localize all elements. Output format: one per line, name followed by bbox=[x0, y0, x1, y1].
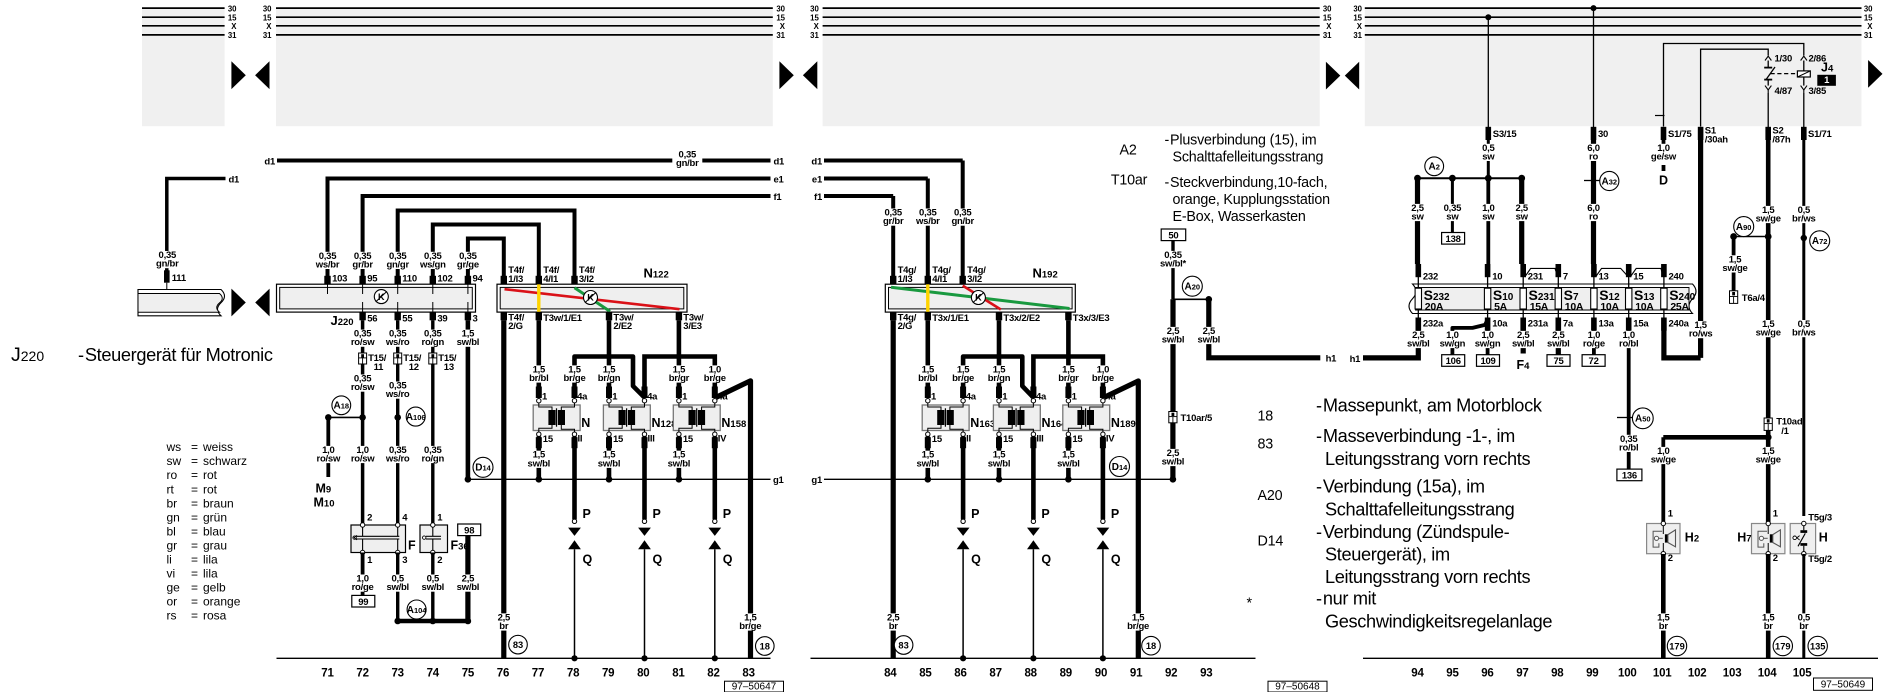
svg-text:- Masseverbindung -1-, im: - Masseverbindung -1-, im bbox=[1316, 426, 1515, 446]
svg-text:N163: N163 bbox=[970, 416, 995, 430]
wire 1,5 br/gr to coil N158 bbox=[664, 320, 694, 398]
ground 179 (H7) bbox=[1773, 636, 1792, 655]
svg-text:4: 4 bbox=[402, 513, 408, 524]
svg-text:4a: 4a bbox=[1106, 392, 1117, 403]
svg-text:gr/ge: gr/ge bbox=[457, 259, 479, 270]
svg-text:=: = bbox=[191, 552, 198, 566]
svg-text:T3x/3/E3: T3x/3/E3 bbox=[1073, 313, 1110, 324]
svg-text:A106: A106 bbox=[406, 412, 426, 423]
svg-text:31: 31 bbox=[1323, 31, 1332, 40]
svg-text:h1: h1 bbox=[1350, 354, 1362, 365]
svg-text:1: 1 bbox=[1072, 392, 1078, 403]
svg-text:sw/bl: sw/bl bbox=[1057, 458, 1080, 469]
wire 1,5 br/gr to coil N189 bbox=[1053, 320, 1083, 398]
svg-text:135: 135 bbox=[1810, 641, 1826, 651]
wire S1/30ah-1/30 feed bbox=[1701, 49, 1769, 126]
wire h1 (middle panel) bbox=[1194, 299, 1337, 364]
svg-text:94: 94 bbox=[473, 274, 484, 285]
svg-text:ro/sw: ro/sw bbox=[351, 454, 375, 465]
svg-text:103: 103 bbox=[332, 274, 347, 285]
svg-text:10a: 10a bbox=[1492, 318, 1508, 329]
svg-text:sw/bl: sw/bl bbox=[528, 458, 551, 469]
svg-text:br/ge: br/ge bbox=[952, 373, 974, 384]
svg-text:ro/gn: ro/gn bbox=[422, 454, 445, 465]
svg-text:15: 15 bbox=[613, 434, 624, 445]
svg-text:br/ws: br/ws bbox=[1792, 214, 1816, 225]
svg-text:30: 30 bbox=[1323, 4, 1332, 13]
svg-text:ws/br: ws/br bbox=[915, 216, 940, 227]
wire S1/75-2/86 feed bbox=[1664, 44, 1804, 127]
svg-text:4/I1: 4/I1 bbox=[543, 274, 559, 285]
svg-text:1: 1 bbox=[612, 392, 618, 403]
svg-text:87: 87 bbox=[989, 667, 1001, 679]
ground 83 (left) bbox=[509, 635, 528, 654]
svg-text:sw/bl: sw/bl bbox=[422, 582, 445, 593]
svg-text:*: * bbox=[1247, 595, 1253, 611]
wire 2,5 sw/bl to g1 bbox=[1158, 423, 1188, 480]
svg-text:ro/sw: ro/sw bbox=[317, 454, 341, 465]
svg-text:- Verbindung (Zündspule-: - Verbindung (Zündspule- bbox=[1316, 522, 1510, 542]
svg-text:18: 18 bbox=[760, 641, 770, 651]
svg-text:30: 30 bbox=[263, 4, 272, 13]
box 72 bbox=[1582, 355, 1605, 367]
svg-text:sw/bl: sw/bl bbox=[386, 582, 409, 593]
svg-text:T3x/1/E1: T3x/1/E1 bbox=[932, 313, 970, 324]
control unit connector strip J220 bbox=[277, 284, 476, 312]
svg-text:ws/br: ws/br bbox=[315, 259, 340, 270]
svg-text:31: 31 bbox=[776, 31, 785, 40]
svg-text:D14: D14 bbox=[1112, 462, 1128, 473]
svg-text:g1: g1 bbox=[773, 475, 785, 486]
svg-text:10A: 10A bbox=[1635, 301, 1654, 313]
svg-text:br/ge: br/ge bbox=[704, 373, 726, 384]
svg-text:103: 103 bbox=[1723, 667, 1742, 679]
svg-text:101: 101 bbox=[1653, 667, 1672, 679]
svg-text:- Steckverbindung,10-fach,: - Steckverbindung,10-fach, bbox=[1165, 175, 1328, 191]
svg-text:232: 232 bbox=[1423, 271, 1438, 282]
svg-text:f1: f1 bbox=[774, 192, 783, 203]
svg-text:3: 3 bbox=[473, 314, 478, 325]
label N192 bbox=[1033, 266, 1058, 281]
svg-text:97–50648: 97–50648 bbox=[1275, 682, 1320, 692]
svg-text:10A: 10A bbox=[1600, 301, 1619, 313]
box 109 bbox=[1477, 355, 1500, 367]
ignition coil N158 bbox=[673, 387, 746, 449]
svg-text:240: 240 bbox=[1669, 271, 1684, 282]
svg-text:br/ge: br/ge bbox=[564, 373, 586, 384]
svg-text:11: 11 bbox=[374, 362, 385, 373]
svg-text:56: 56 bbox=[367, 314, 377, 325]
ignition transformer connector strip N122 bbox=[497, 284, 687, 312]
wire e1 from pin 103 bbox=[328, 174, 785, 284]
svg-text:N: N bbox=[581, 416, 590, 430]
svg-text:31: 31 bbox=[228, 31, 237, 40]
svg-text:ro: ro bbox=[167, 468, 178, 482]
svg-text:T10ar/5: T10ar/5 bbox=[1181, 413, 1213, 424]
svg-text:ws/gn: ws/gn bbox=[419, 259, 446, 270]
wire fuse 240a to S1/30ah bbox=[1664, 331, 1701, 358]
wire 2,5 sw/bl to box 75 bbox=[1543, 330, 1573, 355]
spark plug P/Q (cyl II middle) bbox=[957, 436, 981, 661]
svg-text:138: 138 bbox=[1446, 234, 1461, 245]
svg-text:K: K bbox=[378, 292, 385, 302]
svg-text:50: 50 bbox=[1168, 230, 1178, 241]
svg-text:sw: sw bbox=[1482, 151, 1495, 162]
svg-text:104: 104 bbox=[1758, 667, 1777, 679]
svg-text:d1: d1 bbox=[229, 174, 241, 185]
wire 1,5 br/ge bridge N-4a to N128-4a bbox=[560, 357, 645, 399]
svg-text:X: X bbox=[1326, 22, 1332, 31]
red wire in N122 bbox=[505, 289, 680, 309]
svg-text:75: 75 bbox=[462, 667, 475, 679]
svg-text:br: br bbox=[1799, 621, 1809, 632]
svg-text:d1: d1 bbox=[811, 156, 823, 167]
svg-text:Q: Q bbox=[583, 552, 593, 566]
N122 top pins T4f bbox=[501, 265, 596, 285]
svg-text:3/I2: 3/I2 bbox=[967, 274, 982, 285]
page connector triangles (top) bbox=[231, 60, 1882, 90]
switch F36 bbox=[420, 523, 469, 555]
label J220 bbox=[331, 313, 354, 328]
junction A104 bbox=[394, 600, 471, 624]
svg-text:rosa: rosa bbox=[203, 608, 227, 622]
svg-text:231: 231 bbox=[1528, 271, 1544, 282]
svg-text:sw/bl: sw/bl bbox=[917, 458, 940, 469]
svg-text:ws/ro: ws/ro bbox=[385, 454, 410, 465]
svg-text:e1: e1 bbox=[774, 174, 785, 185]
svg-text:sw/ge: sw/ge bbox=[1756, 214, 1781, 225]
svg-text:86: 86 bbox=[954, 667, 966, 679]
svg-text:br/gn: br/gn bbox=[598, 373, 621, 384]
svg-text:97–50647: 97–50647 bbox=[732, 682, 777, 692]
connector T10ar/5 bbox=[1169, 412, 1213, 424]
svg-text:1: 1 bbox=[1002, 392, 1008, 403]
svg-text:=: = bbox=[191, 496, 198, 510]
svg-text:240a: 240a bbox=[1669, 318, 1690, 329]
svg-text:sw: sw bbox=[1482, 212, 1495, 223]
svg-text:4/I1: 4/I1 bbox=[932, 274, 948, 285]
junction D14 (left) bbox=[473, 457, 493, 477]
svg-text:gr/br: gr/br bbox=[883, 216, 904, 227]
svg-text:13: 13 bbox=[444, 362, 454, 373]
svg-text:1: 1 bbox=[1668, 509, 1674, 520]
svg-text:ro/ge: ro/ge bbox=[352, 582, 374, 593]
svg-text:10A: 10A bbox=[1565, 301, 1584, 313]
svg-text:e1: e1 bbox=[812, 174, 823, 185]
ground 18 (middle) bbox=[1142, 636, 1161, 655]
svg-text:- Massepunkt, am Motorblock: - Massepunkt, am Motorblock bbox=[1316, 395, 1543, 415]
svg-text:84: 84 bbox=[884, 667, 897, 679]
ignition coil N163 bbox=[922, 387, 995, 449]
svg-text:gn/gr: gn/gr bbox=[386, 259, 409, 270]
ground 179 (H2) bbox=[1667, 636, 1686, 655]
fuse strip bbox=[1409, 284, 1696, 314]
svg-text:31: 31 bbox=[1864, 31, 1873, 40]
wire 1,5 ro/ws (S1/30ah) bbox=[1686, 140, 1716, 358]
svg-text:85: 85 bbox=[919, 667, 932, 679]
svg-text:br/ge: br/ge bbox=[739, 621, 761, 632]
svg-text:br/ge: br/ge bbox=[1092, 373, 1114, 384]
fuse top pin labels bbox=[1423, 271, 1684, 282]
svg-text:H: H bbox=[1819, 531, 1828, 545]
box 99 bbox=[352, 595, 375, 607]
svg-text:89: 89 bbox=[1060, 667, 1072, 679]
spark plug P/Q (cyl III) bbox=[638, 436, 662, 661]
svg-text:18: 18 bbox=[1146, 641, 1156, 651]
svg-text:=: = bbox=[191, 608, 198, 622]
svg-text:br/bl: br/bl bbox=[918, 373, 937, 384]
svg-text:br: br bbox=[889, 621, 899, 632]
svg-text:1/30: 1/30 bbox=[1775, 54, 1793, 65]
tick S1/75 bbox=[1655, 115, 1665, 117]
svg-text:X: X bbox=[266, 22, 272, 31]
svg-text:83: 83 bbox=[742, 667, 754, 679]
svg-text:sw/bl: sw/bl bbox=[668, 458, 691, 469]
wire 1,0 ge/sw to D bbox=[1649, 140, 1679, 188]
svg-text:J220: J220 bbox=[331, 313, 354, 328]
svg-text:/1: /1 bbox=[1781, 426, 1789, 437]
svg-text:102: 102 bbox=[437, 274, 452, 285]
svg-text:30: 30 bbox=[1353, 4, 1362, 13]
svg-text:or: or bbox=[167, 594, 178, 608]
svg-text:sw/bl: sw/bl bbox=[1162, 457, 1185, 468]
svg-text:rot: rot bbox=[203, 468, 218, 482]
svg-text:P: P bbox=[583, 507, 591, 521]
svg-text:Leitungsstrang vorn rechts: Leitungsstrang vorn rechts bbox=[1325, 567, 1530, 587]
svg-text:97: 97 bbox=[1516, 667, 1528, 679]
svg-text:15: 15 bbox=[932, 434, 943, 445]
page connector triangles (strip level) bbox=[231, 289, 269, 317]
svg-text:gn/br: gn/br bbox=[676, 158, 699, 169]
svg-text:=: = bbox=[191, 524, 198, 538]
svg-text:2: 2 bbox=[367, 513, 372, 524]
svg-text:schwarz: schwarz bbox=[203, 454, 247, 468]
svg-text:D14: D14 bbox=[1258, 533, 1284, 549]
box 98 bbox=[458, 524, 481, 536]
svg-text:4a: 4a bbox=[647, 392, 658, 403]
svg-text:sw/bl: sw/bl bbox=[598, 458, 621, 469]
svg-text:Q: Q bbox=[971, 552, 981, 566]
wire labels 0,35 above J220 bbox=[313, 251, 483, 271]
wire 1,0 ro/ge bbox=[348, 553, 378, 596]
svg-text:=: = bbox=[191, 580, 198, 594]
legend 18 83 A20 D14 * bbox=[1247, 395, 1553, 631]
label N122 bbox=[644, 266, 669, 281]
svg-text:N158: N158 bbox=[721, 416, 746, 430]
svg-text:sw/bl: sw/bl bbox=[1162, 335, 1185, 346]
svg-text:P: P bbox=[1041, 507, 1049, 521]
svg-text:ws/ro: ws/ro bbox=[385, 337, 410, 348]
svg-text:95: 95 bbox=[367, 274, 378, 285]
svg-text:74: 74 bbox=[427, 667, 440, 679]
svg-text:111: 111 bbox=[172, 273, 187, 284]
svg-text:81: 81 bbox=[672, 667, 685, 679]
svg-text:sw: sw bbox=[167, 454, 182, 468]
svg-text:gr: gr bbox=[167, 538, 178, 552]
svg-text:P: P bbox=[971, 507, 979, 521]
svg-text:br: br bbox=[1764, 621, 1774, 632]
wire label 0,35 ws/ro (below T15/12) bbox=[383, 381, 413, 401]
wire d1 to pin 111 bbox=[152, 174, 240, 270]
svg-text:3/E3: 3/E3 bbox=[683, 321, 702, 332]
svg-text:S1/71: S1/71 bbox=[1808, 129, 1833, 140]
yellow wire in N122 bbox=[537, 283, 540, 313]
svg-text:sw/bl: sw/bl bbox=[457, 337, 480, 348]
terminal pin labels S3/15 30 S1/75 S1/30ah S2/87h S1/71 bbox=[1493, 126, 1833, 146]
svg-text:232a: 232a bbox=[1423, 318, 1444, 329]
diagram number 97-50648 bbox=[1268, 681, 1327, 692]
svg-text:sw/gn: sw/gn bbox=[1440, 339, 1466, 350]
wire 2,5 br to ground bbox=[489, 320, 519, 658]
wire 2,5 sw to fuse S231 bbox=[1507, 178, 1537, 264]
box 50 bbox=[1161, 229, 1186, 241]
horn H (high tone) bbox=[1790, 512, 1832, 565]
svg-text:braun: braun bbox=[203, 496, 234, 510]
svg-text:sw: sw bbox=[1446, 212, 1459, 223]
svg-text:br/gr: br/gr bbox=[1058, 373, 1079, 384]
svg-text:109: 109 bbox=[1480, 356, 1495, 367]
svg-text:X: X bbox=[1867, 22, 1873, 31]
green wire in N122 bbox=[575, 288, 611, 312]
ignition transformer connector strip N192 bbox=[885, 284, 1075, 312]
svg-text:grau: grau bbox=[203, 538, 227, 552]
svg-text:ro/bl: ro/bl bbox=[1619, 442, 1638, 453]
svg-text:X: X bbox=[1357, 22, 1363, 31]
wire 2,5 br to ground (middle) bbox=[878, 320, 908, 658]
svg-text:III: III bbox=[1036, 434, 1043, 445]
wire 2,5 sw/bl to T10ar/5 bbox=[1158, 299, 1188, 411]
svg-text:=: = bbox=[191, 594, 198, 608]
wire 1,5 br/ge bridge N163-4a to N164-4a bbox=[948, 357, 1033, 399]
pin 111 bbox=[164, 270, 187, 295]
svg-text:X: X bbox=[231, 22, 237, 31]
relay J4 contacts and coil bbox=[1764, 56, 1810, 93]
svg-text:=: = bbox=[191, 510, 198, 524]
svg-text:=: = bbox=[191, 482, 198, 496]
svg-text:Leitungsstrang vorn rechts: Leitungsstrang vorn rechts bbox=[1325, 449, 1530, 469]
svg-text:bl: bl bbox=[167, 524, 176, 538]
N192 top pins T4g bbox=[890, 265, 986, 285]
junction A18 bbox=[325, 396, 366, 421]
wire label 0,35 ro/sw (below T15/11) bbox=[348, 374, 378, 394]
wire pin94 to T4f/1/I3 bbox=[468, 239, 504, 285]
wire 2,5 sw/bl to F4 bbox=[1508, 330, 1538, 372]
svg-text:88: 88 bbox=[1024, 667, 1037, 679]
svg-text:E-Box, Wasserkasten: E-Box, Wasserkasten bbox=[1173, 209, 1306, 225]
svg-text:A72: A72 bbox=[1812, 236, 1828, 247]
svg-text:15: 15 bbox=[1633, 271, 1644, 282]
svg-text:II: II bbox=[578, 434, 583, 445]
terminal bus panels (gray) bbox=[142, 9, 1862, 126]
bottom rail (right panel) bbox=[1363, 657, 1878, 659]
svg-text:ro/sw: ro/sw bbox=[351, 337, 375, 348]
wire 1,0 br/ge bridge N128-4a to N158-4a bbox=[645, 357, 730, 399]
svg-text:Q: Q bbox=[1111, 552, 1121, 566]
svg-text:D: D bbox=[1659, 174, 1668, 188]
junction A106 bbox=[394, 407, 425, 426]
connector T15/11 bbox=[359, 353, 387, 373]
svg-text:72: 72 bbox=[356, 667, 368, 679]
track numbers 71-83 bbox=[321, 667, 755, 679]
N122 bottom pins bbox=[501, 312, 704, 332]
svg-text:T3w/1/E1: T3w/1/E1 bbox=[543, 313, 583, 324]
spark plug P/Q (cyl IV middle) bbox=[1097, 436, 1121, 661]
svg-text:sw/bl: sw/bl bbox=[1198, 335, 1221, 346]
svg-text:ws: ws bbox=[166, 440, 182, 454]
track numbers 94-105 bbox=[1411, 667, 1812, 679]
svg-text:136: 136 bbox=[1622, 471, 1637, 482]
junction A90 bbox=[1730, 217, 1771, 240]
legend A2 bbox=[1120, 133, 1324, 166]
svg-text:179: 179 bbox=[1669, 641, 1685, 651]
junction A32 bbox=[1584, 171, 1619, 190]
svg-text:sw/bl: sw/bl bbox=[1512, 339, 1535, 350]
svg-text:br: br bbox=[499, 621, 509, 632]
svg-text:g1: g1 bbox=[811, 475, 823, 486]
svg-text:4a: 4a bbox=[577, 392, 588, 403]
svg-text:rs: rs bbox=[167, 608, 177, 622]
ground 135 (H) bbox=[1808, 636, 1827, 655]
svg-text:13: 13 bbox=[1599, 271, 1609, 282]
svg-text:A20: A20 bbox=[1185, 282, 1201, 293]
svg-text:110: 110 bbox=[402, 274, 417, 285]
svg-text:A32: A32 bbox=[1602, 176, 1618, 187]
wire 2,5 sw/bl (box98) bbox=[453, 536, 483, 622]
wires 1,0 sw/gn from fuse 10a bbox=[1437, 320, 1502, 356]
svg-text:gn/br: gn/br bbox=[951, 216, 974, 227]
svg-text:F: F bbox=[408, 539, 416, 553]
wire 0,5 br/ws (S1/71) bbox=[1789, 140, 1819, 516]
wire labels above F/F36 bbox=[348, 445, 448, 465]
wire ws/ro pin55 down bbox=[396, 320, 399, 525]
svg-text:S3/15: S3/15 bbox=[1493, 129, 1518, 140]
wire sw/bl pin3 down bbox=[466, 320, 471, 479]
pin labels 1 3 2 bbox=[367, 555, 442, 566]
svg-text:ro/bl: ro/bl bbox=[1619, 339, 1638, 350]
ignition coil N164 bbox=[993, 387, 1067, 449]
junction A2 bus bbox=[1414, 157, 1525, 182]
svg-text:3: 3 bbox=[402, 555, 407, 566]
svg-text:Steuergerät), im: Steuergerät), im bbox=[1325, 544, 1450, 564]
svg-text:T5g/2: T5g/2 bbox=[1808, 554, 1832, 565]
J220 pins 103 95 110 102 94 bbox=[324, 274, 483, 295]
wire f1 (middle panel) bbox=[814, 192, 908, 284]
svg-text:15: 15 bbox=[1072, 434, 1083, 445]
svg-text:99: 99 bbox=[1586, 667, 1598, 679]
wire e1 (middle panel) bbox=[812, 174, 943, 284]
wire 1,0 sw/ge to H2 bbox=[1648, 437, 1678, 522]
svg-text:83: 83 bbox=[513, 640, 523, 650]
svg-text:1: 1 bbox=[682, 392, 688, 403]
wire S3/15 drop bbox=[1485, 14, 1491, 127]
svg-text:N189: N189 bbox=[1111, 416, 1136, 430]
svg-text:100: 100 bbox=[1618, 667, 1637, 679]
bus line labels bbox=[228, 4, 1873, 40]
svg-text:1: 1 bbox=[1773, 509, 1779, 520]
svg-text:rt: rt bbox=[167, 482, 175, 496]
spark plug P/Q (cyl IV) bbox=[708, 436, 732, 661]
junction A72 bbox=[1801, 231, 1830, 251]
connector T15/13 bbox=[429, 353, 457, 373]
svg-text:- nur mit: - nur mit bbox=[1316, 589, 1376, 609]
fuse top pins bbox=[1416, 264, 1667, 277]
wire 1,5 br/gn to coil N164 bbox=[984, 320, 1014, 398]
svg-text:30: 30 bbox=[776, 4, 785, 13]
svg-text:15: 15 bbox=[543, 434, 554, 445]
svg-text:A2: A2 bbox=[1428, 162, 1439, 173]
svg-text:2/E2: 2/E2 bbox=[613, 321, 632, 332]
svg-text:sw/bl: sw/bl bbox=[988, 458, 1011, 469]
